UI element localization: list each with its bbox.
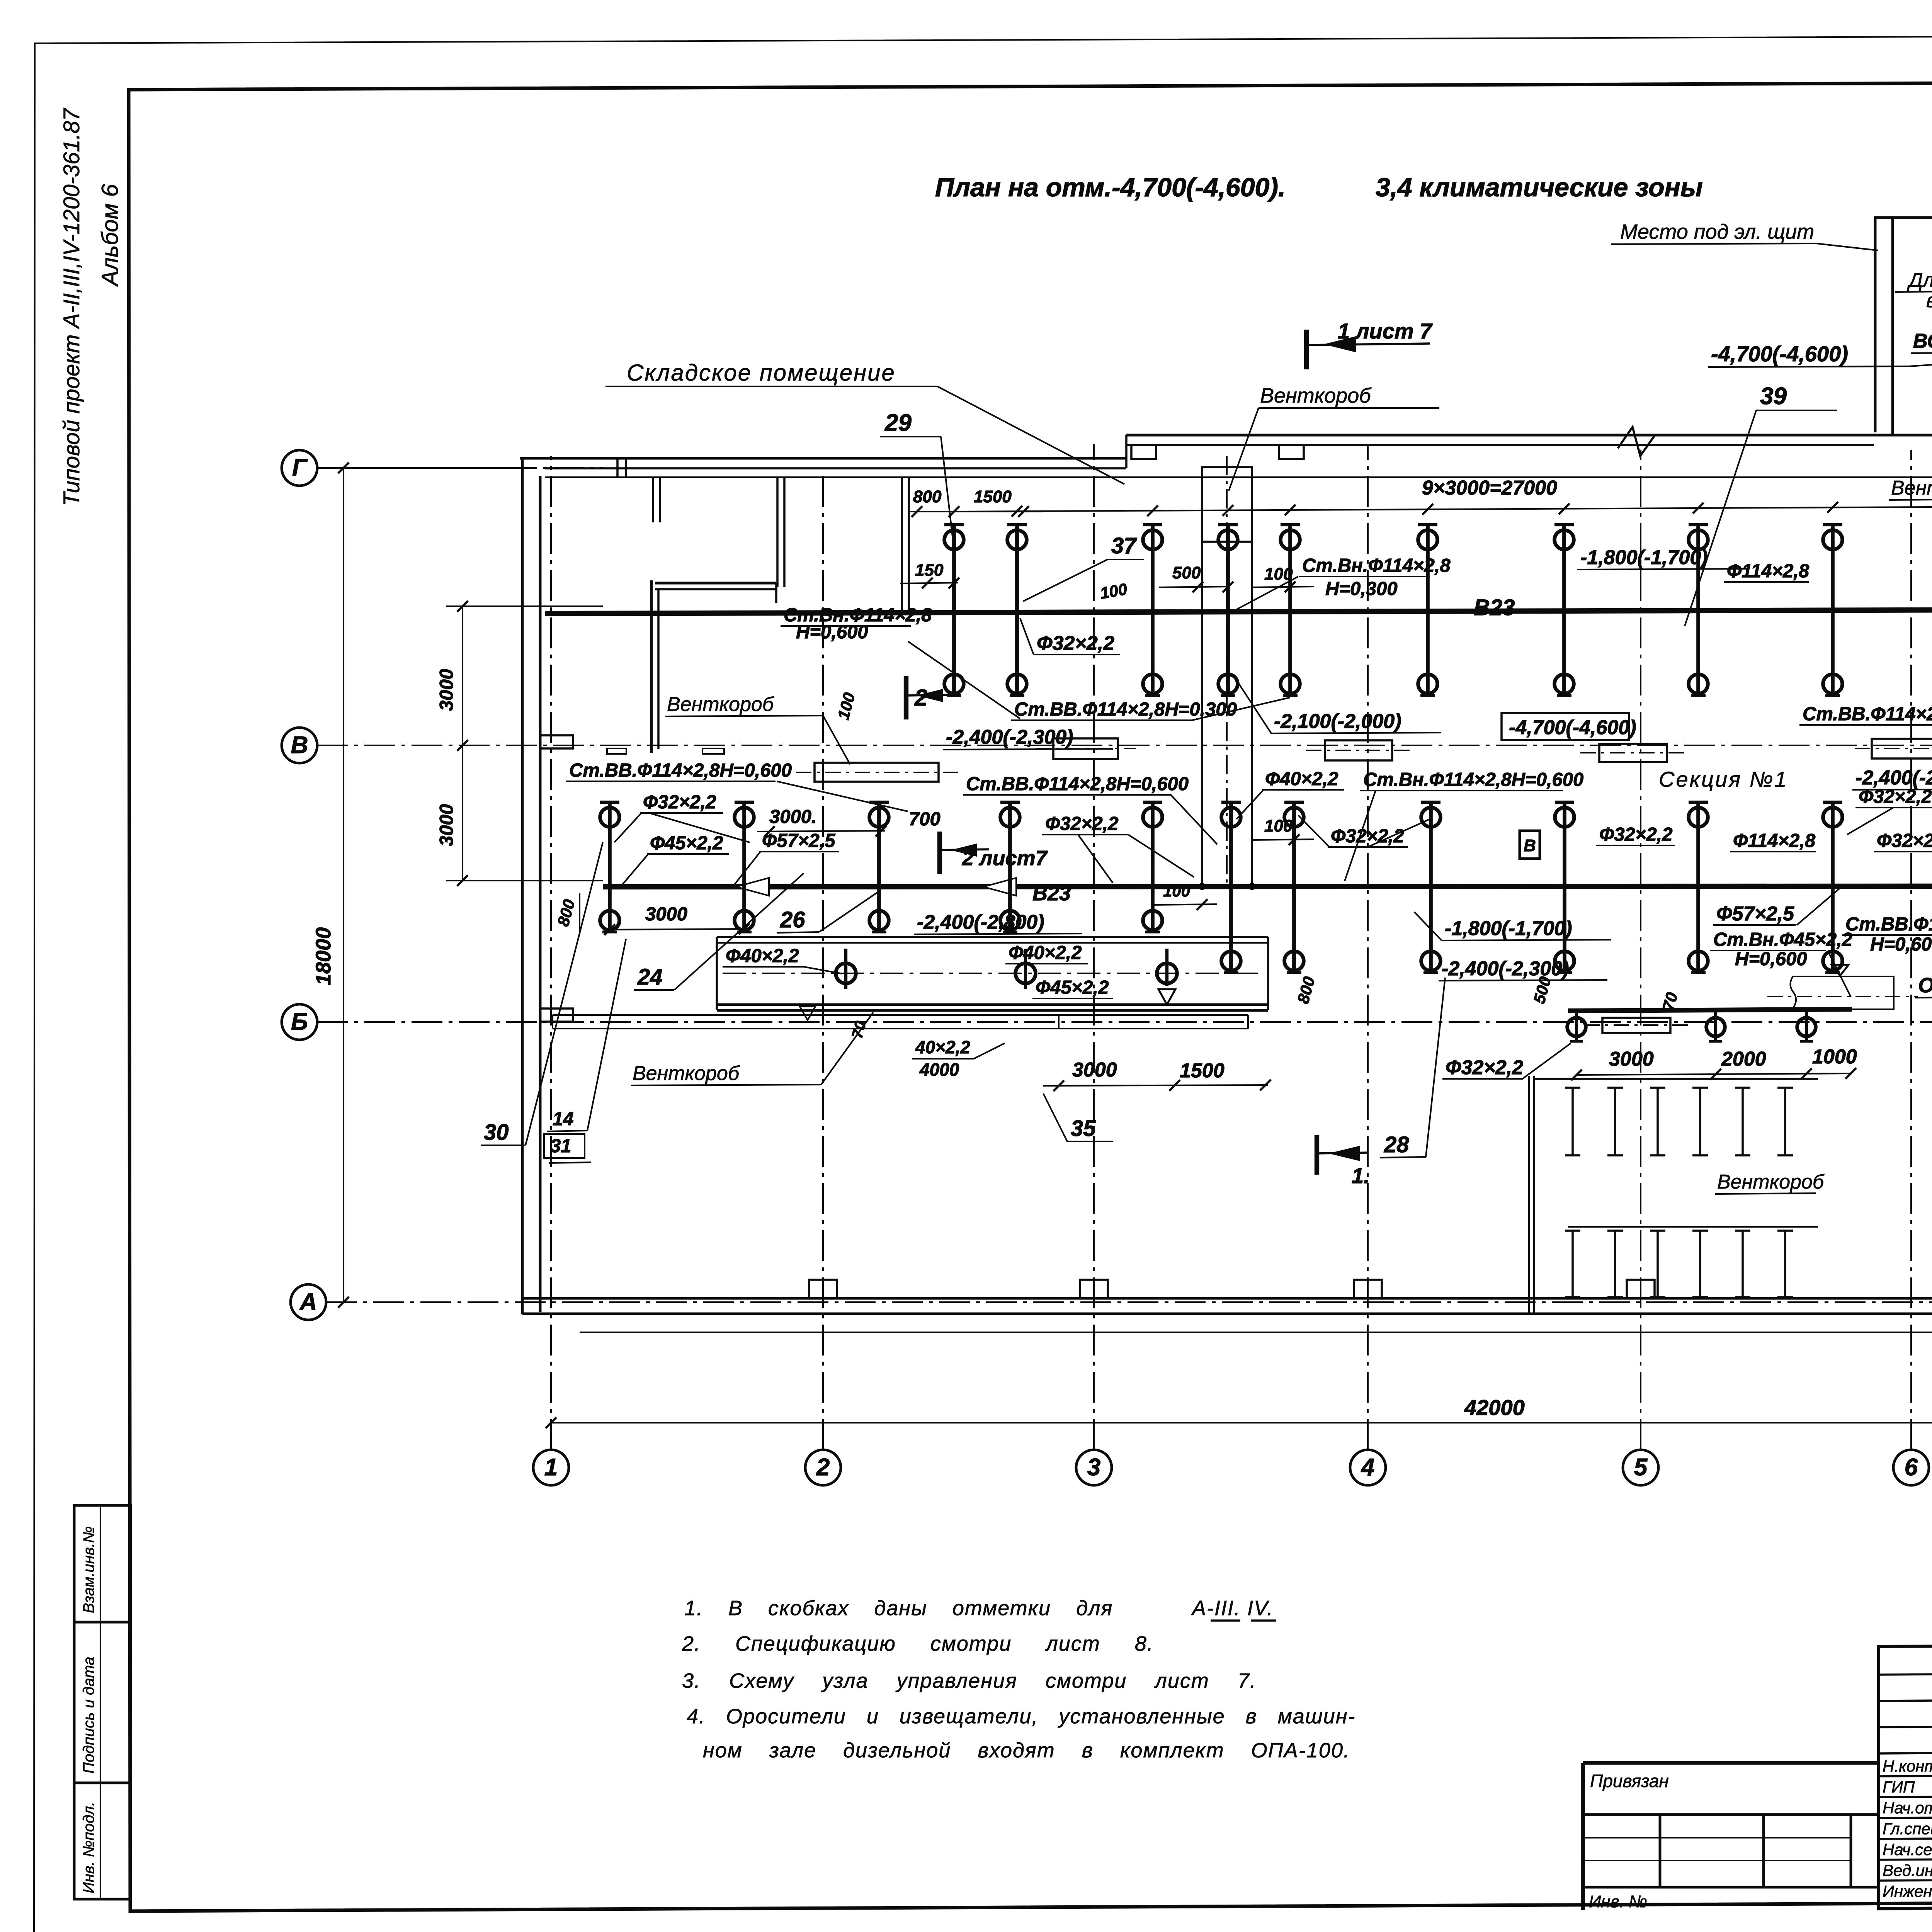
riser x=4395 lower — [1696, 801, 1700, 973]
svg-text:-2,100(-2,000): -2,100(-2,000) — [1274, 710, 1401, 733]
riser x=2632 upper — [1015, 524, 1019, 696]
svg-text:ВС-150N1: ВС-150N1 — [1913, 330, 1932, 352]
top wall pilaster 2 — [1279, 445, 1304, 459]
svg-text:3000: 3000 — [1072, 1059, 1117, 1081]
svg-text:-1,800(-1,700): -1,800(-1,700) — [1580, 546, 1708, 569]
grid column 6 — [1893, 1450, 1929, 1485]
svg-text:В23: В23 — [1032, 882, 1071, 905]
name rows — [1879, 1775, 1932, 1776]
section mark 2 (top) — [904, 676, 908, 719]
riser x=4743 upper — [1831, 524, 1835, 696]
svg-text:Ст.ВВ.Ф114×2,8Н=0,300: Ст.ВВ.Ф114×2,8Н=0,300 — [1803, 704, 1932, 724]
bottom foundation line — [580, 1332, 1932, 1333]
vent box row В left — [815, 763, 939, 782]
grid column 2 — [805, 1450, 841, 1485]
svg-text:40×2,2: 40×2,2 — [915, 1037, 970, 1057]
svg-text:30: 30 — [484, 1120, 509, 1145]
svg-text:Н=0,600: Н=0,600 — [1870, 934, 1932, 955]
svg-text:37: 37 — [1111, 533, 1137, 558]
top wall step at x2915 — [1125, 435, 1128, 468]
store sprinkler 3 — [1157, 963, 1177, 983]
bottom exterior wall — [522, 1297, 1932, 1300]
section mark 1 (top) — [1304, 330, 1309, 369]
svg-text:Ф32×2,2: Ф32×2,2 — [1045, 813, 1119, 834]
vent box mid 3 — [1872, 739, 1932, 759]
svg-text:5: 5 — [1634, 1454, 1648, 1481]
svg-text:1. В скобках даны отметки для: 1. В скобках даны отметки для — [684, 1597, 1113, 1620]
svg-text:31: 31 — [550, 1136, 571, 1156]
svg-text:Ф45×2,2: Ф45×2,2 — [650, 833, 723, 854]
svg-text:Ф57×2,5: Ф57×2,5 — [1716, 903, 1794, 925]
Б branch drencher triangle — [1832, 965, 1849, 976]
riser x=3339 upper — [1288, 524, 1292, 696]
svg-text:3000: 3000 — [436, 804, 457, 846]
riser x=1578 lower-left — [608, 801, 612, 932]
top wall pilaster 1 — [1131, 445, 1156, 459]
grid row Г — [282, 450, 317, 486]
svg-text:26: 26 — [780, 907, 805, 932]
riser x=2469 upper — [952, 524, 956, 696]
flow arrow 1 on lower main — [736, 878, 769, 896]
svg-text:Ст.ВВ.Ф114×2,8Н=0,600: Ст.ВВ.Ф114×2,8Н=0,600 — [569, 760, 792, 781]
grid column 1 — [533, 1450, 569, 1485]
svg-text:3. Схему узла управления смотр: 3. Схему узла управления смотри лист 7. — [682, 1669, 1257, 1692]
svg-text:3000: 3000 — [436, 669, 457, 711]
dim 9x3000=27000 — [954, 506, 1932, 512]
svg-text:2: 2 — [816, 1454, 830, 1481]
section mark 1 (bottom) — [1315, 1135, 1319, 1175]
top wall inner face line — [545, 476, 1932, 478]
Б branch sprinkler 1 — [1567, 1018, 1586, 1036]
svg-text:Секция №1: Секция №1 — [1659, 767, 1788, 791]
partition room top-left (П shape) — [650, 580, 653, 753]
svg-text:18000: 18000 — [312, 927, 335, 985]
svg-text:42000: 42000 — [1464, 1395, 1525, 1420]
branch pipe row Б right (Ф45) — [1568, 1009, 1852, 1011]
partition stub below top wall — [652, 477, 654, 522]
grid column 4 — [1350, 1450, 1386, 1485]
stair area west wall — [1874, 218, 1877, 432]
svg-text:3000: 3000 — [1609, 1048, 1654, 1070]
svg-text:Инв. №: Инв. № — [1589, 1892, 1647, 1911]
svg-text:Ф114×2,8: Ф114×2,8 — [1733, 830, 1816, 851]
svg-text:Ф32×2,2: Ф32×2,2 — [1037, 632, 1114, 655]
svg-text:Инв. №подл.: Инв. №подл. — [80, 1802, 97, 1893]
svg-text:В: В — [291, 732, 308, 759]
svg-text:28: 28 — [1384, 1132, 1409, 1157]
vent box mid 1 — [1325, 740, 1392, 760]
svg-text:14: 14 — [553, 1109, 574, 1129]
svg-text:1: 1 — [544, 1454, 558, 1481]
svg-text:Ф45×2,2: Ф45×2,2 — [1036, 977, 1109, 998]
riser x=2983 lower-left — [1151, 801, 1155, 932]
svg-text:Ф40×2,2: Ф40×2,2 — [726, 946, 799, 966]
svg-text:1500: 1500 — [974, 487, 1012, 506]
stair area top wall — [1874, 216, 1932, 219]
svg-text:Гл.спец.: Гл.спец. — [1883, 1820, 1932, 1838]
grid row Б — [282, 1004, 317, 1040]
svg-text:700: 700 — [909, 809, 940, 830]
title block outline — [1879, 1643, 1932, 1909]
svg-text:Ф32×2,2: Ф32×2,2 — [1877, 830, 1932, 851]
grid column 5 — [1623, 1450, 1658, 1485]
svg-text:800: 800 — [913, 487, 942, 506]
svg-text:3000: 3000 — [645, 904, 687, 925]
svg-text:Типовой проект А-II,III,IV-120: Типовой проект А-II,III,IV-1200-361.87 — [59, 107, 84, 506]
top exterior wall west segment — [520, 457, 1126, 460]
riser x=3186 lower — [1229, 801, 1233, 973]
svg-text:100: 100 — [1264, 816, 1293, 835]
svg-text:Ф32×2,2: Ф32×2,2 — [1446, 1056, 1523, 1079]
riser x=2275 lower-left — [877, 801, 881, 932]
svg-text:29: 29 — [884, 410, 912, 436]
leader складское — [937, 386, 1124, 484]
svg-text:24: 24 — [637, 964, 663, 990]
left exterior wall — [521, 458, 524, 1314]
svg-text:1 лист 7: 1 лист 7 — [1338, 319, 1433, 343]
svg-text:Венткороб: Венткороб — [1891, 477, 1932, 499]
grid column 3 — [1076, 1450, 1112, 1485]
riser x=3349 lower — [1292, 801, 1296, 973]
svg-text:Ст.Вн.Ф45×2,2: Ст.Вн.Ф45×2,2 — [1713, 929, 1852, 950]
svg-text:Нач.сект: Нач.сект — [1883, 1840, 1932, 1859]
riser x=3695 upper — [1426, 524, 1430, 696]
riser x=3178 upper — [1226, 524, 1230, 696]
left wall pier stub row Б — [540, 1009, 573, 1022]
riser x=1926 lower-left — [742, 801, 746, 932]
svg-text:-2,400(-2,300): -2,400(-2,300) — [1442, 957, 1569, 980]
Б branch sprinkler 3 — [1797, 1018, 1816, 1036]
riser x=2614 lower-left — [1008, 801, 1012, 932]
svg-text:Подпись и дата: Подпись и дата — [80, 1656, 97, 1774]
svg-text:Б: Б — [291, 1009, 308, 1035]
svg-text:Привязан: Привязан — [1590, 1771, 1669, 1791]
svg-text:Инженер: Инженер — [1883, 1882, 1932, 1900]
grid row В — [282, 728, 317, 763]
riser x=4395 upper — [1696, 524, 1700, 696]
svg-text:3,4 климатические зоны: 3,4 климатические зоны — [1376, 173, 1703, 202]
svg-text:1000: 1000 — [1812, 1046, 1857, 1068]
store room south wall (thick) — [717, 1003, 1268, 1006]
vent duct top line — [1534, 1078, 1818, 1080]
svg-text:2 лист7: 2 лист7 — [962, 847, 1048, 870]
riser x=3703 lower — [1429, 801, 1433, 973]
partition feet — [607, 748, 626, 754]
top exterior wall middle segment — [1126, 434, 1932, 437]
shelf lines below — [553, 1014, 1248, 1016]
vent box col3 row В — [1053, 738, 1118, 759]
riser x=4743 lower — [1831, 801, 1835, 973]
svg-text:3: 3 — [1087, 1454, 1100, 1481]
window jamb ticks top wall — [616, 458, 619, 477]
svg-text:Н=0,600: Н=0,600 — [796, 622, 868, 643]
svg-text:39: 39 — [1760, 383, 1787, 410]
svg-text:Н.контр: Н.контр — [1883, 1757, 1932, 1775]
svg-text:2: 2 — [914, 685, 927, 711]
svg-text:35: 35 — [1071, 1116, 1096, 1141]
vent grille band 1 — [1571, 1088, 1574, 1155]
svg-text:Ф40×2,2: Ф40×2,2 — [1009, 942, 1082, 963]
svg-text:1.: 1. — [1352, 1163, 1370, 1188]
dim line 18000 (left) — [343, 468, 344, 1302]
grid row А — [291, 1284, 326, 1320]
svg-text:Г: Г — [292, 454, 308, 481]
upper main pipe В23 — [545, 609, 1932, 614]
Б branch sprinkler 2 — [1706, 1018, 1725, 1036]
svg-text:В: В — [1524, 836, 1536, 855]
svg-text:Ф114×2,8: Ф114×2,8 — [1727, 561, 1810, 582]
margin stamp boxes — [74, 1505, 131, 1899]
svg-text:500: 500 — [1172, 563, 1201, 582]
svg-text:Ст.Вн.Ф114×2,8: Ст.Вн.Ф114×2,8 — [1302, 555, 1451, 576]
svg-text:Н=0,300: Н=0,300 — [1325, 578, 1398, 599]
bottom wall pilasters — [809, 1280, 837, 1298]
svg-text:2000: 2000 — [1721, 1048, 1766, 1070]
store sprinkler 1 — [836, 963, 856, 983]
riser x=4048 upper — [1562, 524, 1566, 696]
svg-text:100: 100 — [1163, 882, 1190, 900]
riser x=2983 upper — [1151, 524, 1155, 696]
svg-text:Венткороб: Венткороб — [633, 1062, 740, 1085]
svg-text:-2,400(-2,300): -2,400(-2,300) — [1855, 767, 1932, 789]
svg-text:Венткороб: Венткороб — [1260, 384, 1371, 407]
svg-text:Ст.ВВ.Ф114×2,8Н=0,300: Ст.ВВ.Ф114×2,8Н=0,300 — [1014, 699, 1237, 720]
svg-text:Ф57×2,5: Ф57×2,5 — [762, 830, 835, 851]
svg-text:-4,700(-4,600): -4,700(-4,600) — [1711, 342, 1848, 366]
svg-text:Ф40×2,2: Ф40×2,2 — [1265, 769, 1338, 789]
svg-text:Складское помещение: Складское помещение — [627, 360, 896, 386]
partition wall x2334 — [901, 477, 903, 611]
lower main pipe В23 — [603, 886, 1932, 887]
svg-text:Ф32×2,2: Ф32×2,2 — [1599, 824, 1673, 845]
svg-text:-1,800(-1,700): -1,800(-1,700) — [1445, 917, 1572, 940]
vent duct bottom middle: west wall — [1528, 1076, 1530, 1313]
label box В (section 1) — [1520, 831, 1540, 859]
svg-text:100: 100 — [1264, 565, 1293, 583]
vent grille band 2 — [1571, 1231, 1574, 1297]
svg-text:Для спуска: Для спуска — [1907, 269, 1932, 291]
svg-text:Ст.Вн.Ф114×2,8Н=0,600: Ст.Вн.Ф114×2,8Н=0,600 — [1363, 769, 1583, 790]
partition closet wall — [776, 477, 779, 587]
vent shaft below top wall — [1202, 467, 1252, 542]
svg-text:4: 4 — [1361, 1454, 1374, 1481]
svg-text:Ф32×2,2: Ф32×2,2 — [643, 792, 716, 813]
svg-text:150: 150 — [915, 561, 944, 580]
store room centerline pipe — [723, 973, 1264, 974]
svg-text:4000: 4000 — [919, 1060, 959, 1080]
left wall pier stub row В — [540, 735, 573, 748]
svg-text:Ф32×2,2: Ф32×2,2 — [1859, 786, 1932, 807]
svg-text:Венткороб: Венткороб — [1717, 1171, 1825, 1193]
title block top rows — [1879, 1673, 1932, 1675]
svg-text:ОПА-100: ОПА-100 — [1918, 974, 1932, 997]
vent box mid 2 — [1599, 744, 1667, 762]
svg-text:4. Оросители и извещатели, уст: 4. Оросители и извещатели, установленные… — [687, 1705, 1355, 1728]
stair mid wall stub — [1893, 434, 1932, 436]
svg-text:2. Спецификацию смотри лист 8.: 2. Спецификацию смотри лист 8. — [682, 1632, 1154, 1655]
label -4,700(-4,600) boxed — [1502, 713, 1629, 740]
svg-text:-2,400(-2,800): -2,400(-2,800) — [917, 911, 1044, 934]
svg-text:Взам.инв.№: Взам.инв.№ — [80, 1526, 97, 1613]
svg-text:Альбом 6: Альбом 6 — [97, 184, 123, 287]
store room bottom-left — [717, 936, 1268, 938]
drop arrow under store room — [800, 1007, 815, 1020]
svg-text:Ст.ВВ.Ф114×2,8Н=0,600: Ст.ВВ.Ф114×2,8Н=0,600 — [966, 774, 1189, 794]
top wall break mark — [1618, 427, 1655, 456]
vent box row Б right — [1602, 1018, 1670, 1033]
svg-text:ном зале дизельной входят в ко: ном зале дизельной входят в комплект ОПА… — [703, 1739, 1350, 1762]
svg-text:1500: 1500 — [1180, 1060, 1225, 1082]
svg-text:Нач.отд.: Нач.отд. — [1883, 1799, 1932, 1817]
svg-text:ГИП: ГИП — [1883, 1778, 1915, 1796]
svg-text:А: А — [299, 1289, 317, 1315]
svg-text:воды: воды — [1926, 289, 1932, 312]
section mark 2 (bottom) 2 лист7 — [937, 832, 942, 874]
svg-text:План на отм.-4,700(-4,600).: План на отм.-4,700(-4,600). — [935, 173, 1286, 202]
svg-text:Вед.инж.: Вед.инж. — [1883, 1861, 1932, 1879]
riser x=4049 lower — [1563, 801, 1566, 973]
svg-text:Венткороб: Венткороб — [667, 693, 774, 716]
svg-text:3000.: 3000. — [769, 806, 817, 827]
svg-text:6: 6 — [1905, 1454, 1918, 1481]
ОПА equipment box — [1790, 976, 1894, 1009]
svg-text:В23: В23 — [1474, 595, 1515, 620]
svg-text:А-III. IV.: А-III. IV. — [1191, 1597, 1274, 1620]
svg-text:-4,700(-4,600): -4,700(-4,600) — [1509, 716, 1636, 739]
svg-text:Н=0,600: Н=0,600 — [1735, 949, 1807, 969]
svg-text:9×3000=27000: 9×3000=27000 — [1422, 477, 1557, 499]
svg-text:Место под эл. щит: Место под эл. щит — [1620, 220, 1814, 243]
привязан table — [1583, 1761, 1879, 1765]
store sprinkler 2 — [1015, 963, 1036, 983]
flow arrow 2 on lower main — [983, 878, 1016, 896]
dim line 3000/3000 (left inner) — [462, 606, 463, 881]
dim line 42000 (bottom) — [551, 1422, 1932, 1423]
svg-text:Ст.ВВ.Ф114×2,8: Ст.ВВ.Ф114×2,8 — [1845, 914, 1932, 935]
